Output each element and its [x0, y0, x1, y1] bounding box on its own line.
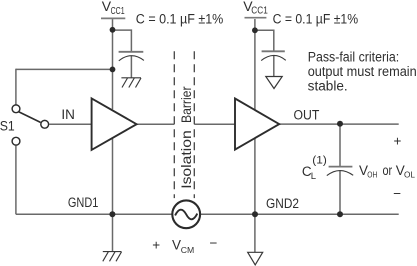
svg-text:+: +: [152, 237, 160, 252]
svg-text:GND1: GND1: [68, 195, 99, 210]
svg-text:−: −: [393, 186, 401, 201]
svg-text:+: +: [394, 134, 402, 149]
svg-text:Pass-fail criteria:: Pass-fail criteria:: [308, 49, 400, 64]
svg-text:−: −: [210, 236, 218, 251]
svg-text:CM: CM: [181, 246, 195, 255]
svg-text:Isolation: Isolation: [178, 130, 194, 189]
svg-text:OL: OL: [404, 171, 416, 180]
svg-text:CC1: CC1: [111, 6, 125, 17]
svg-text:(1): (1): [312, 154, 327, 166]
svg-text:Barrier: Barrier: [178, 86, 194, 123]
svg-text:or: or: [383, 163, 393, 178]
svg-text:C = 0.1 µF ±1%: C = 0.1 µF ±1%: [273, 11, 359, 26]
svg-text:S1: S1: [0, 119, 15, 134]
svg-text:CC1: CC1: [251, 5, 268, 16]
svg-text:OUT: OUT: [294, 107, 320, 122]
svg-text:stable.: stable.: [308, 79, 348, 94]
svg-text:output must remain: output must remain: [308, 64, 417, 79]
svg-text:L: L: [311, 171, 316, 182]
svg-text:V: V: [172, 238, 181, 253]
svg-text:GND2: GND2: [266, 196, 299, 211]
svg-text:C = 0.1 µF ±1%: C = 0.1 µF ±1%: [136, 11, 224, 26]
svg-text:OH: OH: [367, 171, 377, 180]
svg-text:IN: IN: [61, 107, 75, 122]
